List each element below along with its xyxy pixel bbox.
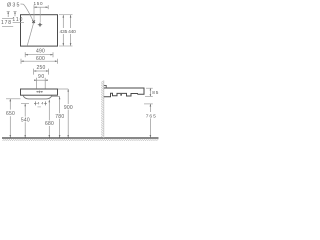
- svg-text:540: 540: [21, 117, 30, 123]
- svg-text:680: 680: [45, 121, 54, 127]
- height dimension 780: [55, 97, 64, 138]
- dimension 150 (top): [34, 1, 49, 9]
- right extension lines: [59, 15, 73, 46]
- svg-text:490: 490: [36, 48, 45, 54]
- svg-text:250: 250: [37, 65, 46, 71]
- svg-text:780: 780: [55, 114, 64, 120]
- side profile upstand step: [104, 85, 106, 88]
- left dimension arrows: [7, 12, 17, 17]
- front view basin body: [21, 89, 58, 95]
- svg-text:4 4: 4 4: [37, 102, 43, 106]
- svg-text:765: 765: [146, 114, 156, 120]
- leader line Ø35: [21, 4, 34, 46]
- left extension lines: [2, 19, 24, 27]
- label 110: [12, 17, 22, 23]
- extension line to hole 2: [39, 7, 41, 22]
- label 178: [1, 20, 11, 26]
- label Ø35: [7, 2, 20, 8]
- dimension 440 (vertical right): [68, 15, 76, 46]
- front view centre mini dimension: [36, 91, 43, 94]
- svg-text:650: 650: [6, 111, 15, 117]
- dimension 765 (side): [144, 104, 156, 138]
- height dimension 680: [45, 100, 54, 138]
- svg-text:85: 85: [152, 90, 159, 95]
- front view bowl: [23, 95, 52, 99]
- dimension 85 (side): [145, 88, 159, 96]
- svg-text:435: 435: [60, 29, 68, 35]
- floor hatching: [3, 139, 159, 141]
- svg-text:150: 150: [34, 1, 43, 6]
- extension line to hole 1: [33, 9, 35, 20]
- tap hole cross 1: [32, 20, 35, 23]
- dimension 435 (vertical right): [60, 15, 68, 46]
- top view basin outline: [21, 15, 58, 46]
- shelf line right of bowl: [52, 96, 60, 98]
- mini dimension 44 under bowl: [34, 101, 47, 107]
- svg-text:90: 90: [38, 74, 44, 80]
- floor line: [2, 137, 159, 139]
- height dimension 650: [6, 99, 21, 138]
- height dimension 540: [21, 104, 30, 138]
- dimension 90: [34, 74, 48, 88]
- wall hatching: [101, 81, 103, 137]
- dimension 490 (bottom): [25, 48, 53, 57]
- svg-text:Ø35: Ø35: [7, 2, 20, 8]
- svg-text:178: 178: [1, 20, 11, 26]
- height dimension 900: [64, 89, 73, 138]
- side profile drain dot: [120, 94, 122, 96]
- dimension 600 (bottom): [21, 56, 58, 64]
- dimension 250 (fixing centres): [34, 65, 49, 75]
- svg-text:900: 900: [64, 105, 73, 111]
- wall line (side view): [103, 81, 105, 139]
- svg-text:440: 440: [68, 29, 76, 35]
- tap hole star 2: [37, 22, 42, 27]
- extension to 900 line: [58, 88, 68, 90]
- side profile of basin: [104, 88, 144, 97]
